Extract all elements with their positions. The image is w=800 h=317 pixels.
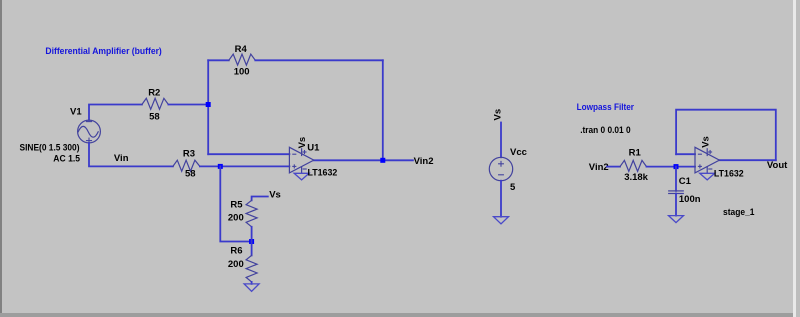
- resistor R3: [173, 160, 200, 171]
- stage_1 V+ power pin: [706, 149, 708, 156]
- svg-text:Vin2: Vin2: [589, 162, 609, 173]
- Vcc body: [489, 157, 512, 180]
- svg-text:LT1632: LT1632: [308, 168, 338, 179]
- stage_1 inverting marker: [698, 153, 701, 155]
- wire junction to C1: [675, 167, 677, 191]
- wire R5 bottom to junction: [251, 227, 253, 242]
- ground (Vcc): [494, 217, 509, 224]
- wire R6 to ground: [251, 282, 253, 284]
- svg-text:LT1632: LT1632: [714, 169, 744, 180]
- svg-text:AC 1.5: AC 1.5: [53, 154, 80, 165]
- svg-text:R3: R3: [183, 148, 195, 159]
- wire V1 top to R2: [89, 105, 142, 121]
- U1 body: [289, 147, 313, 173]
- resistor R2: [142, 98, 169, 109]
- wire top to R4: [208, 59, 229, 61]
- voltage source Vcc: [489, 109, 527, 224]
- svg-text:3.18k: 3.18k: [624, 172, 648, 183]
- svg-text:200: 200: [228, 259, 244, 270]
- junction R5/R6: [249, 239, 254, 244]
- stage_1 body: [695, 147, 719, 173]
- wire Vs to Vcc: [500, 123, 502, 158]
- stage_1 noninverting marker: [698, 165, 701, 167]
- resistor R1: [620, 160, 647, 171]
- ground (C1): [669, 216, 684, 223]
- svg-text:200: 200: [228, 213, 244, 224]
- svg-text:Vout: Vout: [767, 160, 788, 171]
- stage_1 V+ plus marker: [709, 151, 712, 153]
- wire Vcc bottom to ground: [500, 181, 502, 217]
- svg-text:58: 58: [149, 111, 160, 122]
- wire V1 bottom to R3: [89, 143, 173, 166]
- wire vertical node to inverting input level: [207, 60, 209, 154]
- svg-text:C1: C1: [679, 176, 692, 187]
- wire feedback loop stage_1: [676, 110, 776, 161]
- svg-text:Vcc: Vcc: [510, 147, 527, 158]
- svg-text:V1: V1: [70, 107, 82, 118]
- U1 V- power pin: [301, 167, 303, 173]
- svg-text:Lowpass Filter: Lowpass Filter: [577, 102, 635, 113]
- svg-text:Vs: Vs: [269, 189, 281, 200]
- wire R5 top to Vs stub: [252, 197, 268, 201]
- svg-text:stage_1: stage_1: [723, 207, 755, 218]
- window border right: [793, 0, 796, 317]
- wire right vertical feedback: [382, 60, 384, 160]
- V1 minus marker: [87, 121, 92, 123]
- U1 noninverting marker: [293, 165, 296, 167]
- op-amp U1: [289, 137, 337, 180]
- resistor R5: [246, 200, 257, 227]
- svg-text:R1: R1: [629, 148, 642, 159]
- Vcc minus marker: [499, 174, 504, 176]
- wire R2 to node: [168, 104, 208, 106]
- wire U1 output to Vin2: [314, 159, 413, 161]
- wire R3 to noninverting input: [200, 165, 290, 167]
- window border bottom: [0, 313, 794, 317]
- capacitor C1: [669, 190, 684, 192]
- svg-text:R4: R4: [235, 44, 248, 55]
- resistor R6: [246, 255, 257, 282]
- U1 V- minus marker: [303, 168, 306, 170]
- stage_1 V- minus marker: [709, 168, 712, 170]
- svg-text:Vs: Vs: [493, 109, 504, 121]
- V1 plus marker: [87, 140, 92, 142]
- wire C1 to ground: [675, 194, 677, 216]
- U1 V+ power pin: [301, 149, 303, 156]
- junction node R2/R4: [206, 102, 211, 107]
- wire R1 to opamp: [647, 166, 696, 168]
- op-amp stage_1: [695, 136, 755, 218]
- svg-text:Vin2: Vin2: [414, 156, 434, 167]
- ground (R6): [244, 284, 259, 291]
- svg-text:5: 5: [510, 182, 516, 193]
- wire stage_1 output: [719, 159, 775, 161]
- stage_1 V- power pin: [706, 167, 708, 173]
- svg-text:U1: U1: [307, 143, 320, 154]
- wire R4 to right vertical: [255, 59, 382, 61]
- resistor R4: [229, 54, 256, 65]
- wire feedback to inverting input: [676, 153, 695, 155]
- wire to inverting input of U1: [208, 153, 289, 155]
- svg-text:SINE(0 1.5 300): SINE(0 1.5 300): [20, 143, 80, 154]
- svg-text:R5: R5: [230, 200, 243, 211]
- junction feedback/output: [380, 158, 385, 163]
- junction Vin divider: [218, 164, 223, 169]
- voltage source V1: [78, 120, 101, 143]
- wire junction to R6: [251, 242, 253, 256]
- svg-text:R6: R6: [230, 246, 242, 257]
- junction R1/C1: [674, 164, 679, 169]
- U1 V+ plus marker: [303, 151, 306, 153]
- svg-text:Vin: Vin: [114, 153, 129, 164]
- window border left: [0, 0, 2, 313]
- svg-text:100: 100: [234, 67, 250, 78]
- wire junction down to divider: [220, 166, 251, 241]
- svg-text:.tran 0 0.01 0: .tran 0 0.01 0: [580, 125, 630, 136]
- Vcc plus marker: [499, 163, 504, 165]
- svg-text:Vs: Vs: [701, 136, 712, 148]
- svg-text:Differential Amplifier (buffer: Differential Amplifier (buffer): [45, 46, 161, 57]
- ground (stage_1): [700, 173, 715, 180]
- wire Vin2 to R1: [607, 166, 620, 168]
- svg-text:R2: R2: [148, 87, 160, 98]
- svg-text:100n: 100n: [679, 194, 701, 205]
- ground (U1): [294, 173, 309, 180]
- svg-text:58: 58: [185, 168, 196, 179]
- U1 inverting marker: [293, 153, 296, 155]
